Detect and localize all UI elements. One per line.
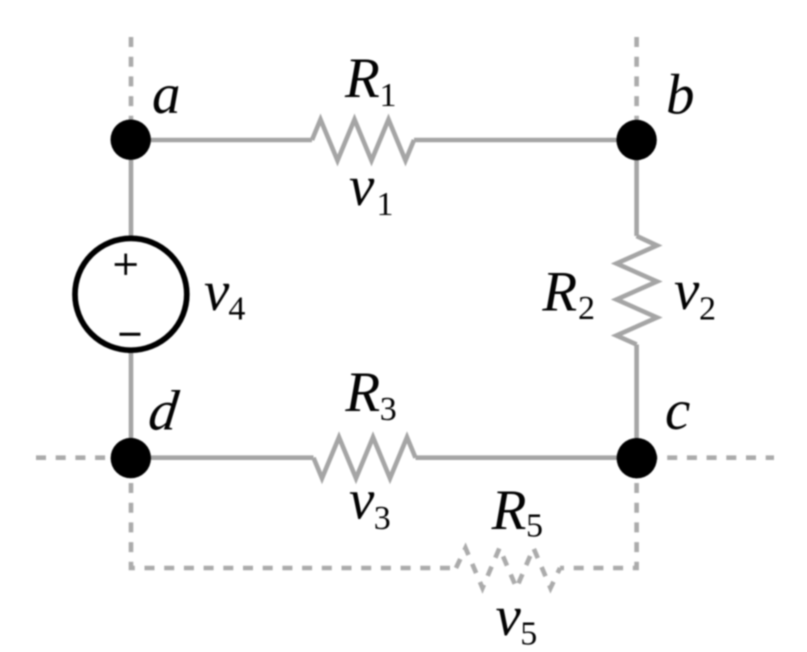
svg-text:2: 2 (699, 291, 716, 328)
svg-text:v: v (496, 585, 522, 648)
svg-text:5: 5 (520, 615, 537, 652)
svg-text:R: R (541, 260, 577, 323)
svg-text:3: 3 (374, 500, 391, 537)
svg-text:1: 1 (380, 77, 397, 114)
svg-text:1: 1 (377, 186, 394, 223)
svg-text:R: R (344, 47, 380, 110)
svg-text:3: 3 (380, 391, 397, 428)
svg-text:v: v (674, 259, 700, 322)
svg-text:2: 2 (578, 290, 595, 327)
svg-text:v: v (349, 155, 375, 218)
svg-text:b: b (666, 64, 695, 127)
svg-text:v: v (349, 469, 375, 532)
svg-text:c: c (665, 379, 690, 442)
svg-text:v: v (204, 260, 230, 323)
svg-text:a: a (152, 63, 181, 126)
svg-text:R: R (491, 479, 527, 542)
svg-text:4: 4 (228, 290, 245, 327)
svg-text:5: 5 (526, 508, 543, 545)
svg-text:R: R (344, 361, 380, 424)
